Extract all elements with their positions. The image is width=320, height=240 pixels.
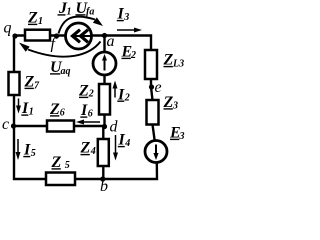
svg-text:5: 5 <box>31 148 36 159</box>
svg-text:q: q <box>4 20 12 37</box>
svg-text:3: 3 <box>179 131 185 142</box>
svg-text:e: e <box>155 79 162 96</box>
svg-text:4: 4 <box>124 138 130 149</box>
svg-text:3: 3 <box>123 12 129 23</box>
svg-text:6: 6 <box>88 109 93 120</box>
svg-text:2: 2 <box>88 88 94 99</box>
svg-text:fa: fa <box>86 7 94 18</box>
svg-text:3: 3 <box>172 101 178 112</box>
svg-text:2: 2 <box>130 50 136 61</box>
svg-text:1: 1 <box>38 16 43 27</box>
svg-text:6: 6 <box>60 108 65 119</box>
svg-text:2: 2 <box>124 93 130 104</box>
svg-text:b: b <box>100 178 108 195</box>
svg-text:5: 5 <box>65 160 70 171</box>
svg-text:4: 4 <box>90 146 96 157</box>
svg-text:1: 1 <box>67 7 72 18</box>
svg-text:d: d <box>110 119 119 136</box>
svg-text:a: a <box>107 33 115 50</box>
svg-text:aq: aq <box>61 66 71 77</box>
svg-text:L3: L3 <box>172 59 184 70</box>
svg-text:1: 1 <box>29 107 34 118</box>
svg-text:c: c <box>2 116 9 133</box>
